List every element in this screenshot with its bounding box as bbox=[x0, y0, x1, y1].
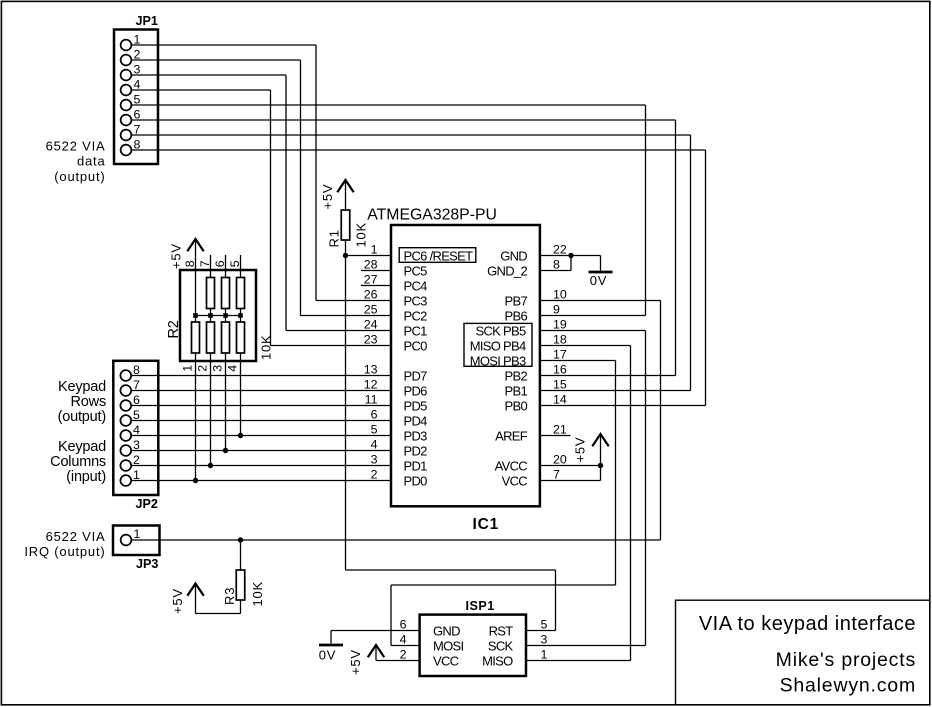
wire MISO: IC1 PB4 (18) to ISP1 pin 1 bbox=[526, 346, 631, 661]
svg-text:MOSI PB3: MOSI PB3 bbox=[470, 353, 526, 368]
wire JP2.5 to IC1 PD4 (6) bbox=[132, 420, 391, 422]
svg-text:23: 23 bbox=[364, 333, 378, 347]
wire MOSI: IC1 PB3 (17) to ISP1 pin 4 bbox=[391, 361, 616, 646]
ISP1 name label bbox=[466, 599, 495, 613]
svg-text:16: 16 bbox=[553, 363, 567, 377]
ISP1 pin numbers left 6 4 2 bbox=[400, 618, 407, 662]
svg-text:PC3: PC3 bbox=[404, 293, 428, 308]
label 6522 VIA IRQ (output) bbox=[24, 529, 105, 559]
connector ISP1 bbox=[420, 615, 526, 676]
R1 name label bbox=[327, 229, 342, 247]
R2 name label bbox=[166, 320, 182, 338]
IC1 name label bbox=[473, 516, 500, 533]
svg-text:GND: GND bbox=[433, 623, 460, 638]
JP1 pin numbers 1-8 bbox=[134, 33, 141, 152]
svg-text:0V: 0V bbox=[319, 648, 337, 663]
svg-text:10: 10 bbox=[553, 288, 567, 302]
wire GND: IC1 pin 22 to 0V bbox=[540, 256, 601, 271]
svg-text:12: 12 bbox=[364, 378, 378, 392]
title text bbox=[699, 613, 916, 635]
wire JP2.2 to IC1 PD1 (3) bbox=[132, 465, 391, 467]
label Keypad Columns (input) bbox=[50, 439, 106, 485]
svg-text:PD4: PD4 bbox=[404, 413, 428, 428]
svg-text:MISO PB4: MISO PB4 bbox=[470, 338, 526, 353]
wire JP2.3 to IC1 PD2 (4) bbox=[132, 450, 391, 452]
svg-text:JP1: JP1 bbox=[136, 14, 158, 28]
R1 value 10K bbox=[354, 222, 369, 248]
svg-text:0V: 0V bbox=[590, 273, 608, 288]
svg-text:(output): (output) bbox=[58, 409, 106, 425]
svg-text:PC2: PC2 bbox=[404, 308, 428, 323]
svg-text:9: 9 bbox=[553, 303, 560, 317]
power +5V (R3) bbox=[170, 584, 204, 615]
connector JP1 bbox=[114, 30, 158, 165]
svg-text:+5V: +5V bbox=[573, 437, 588, 463]
svg-text:SCK PB5: SCK PB5 bbox=[475, 323, 525, 338]
svg-text:28: 28 bbox=[364, 258, 378, 272]
svg-text:2: 2 bbox=[400, 648, 407, 662]
svg-text:ATMEGA328P-PU: ATMEGA328P-PU bbox=[367, 207, 497, 224]
ground 0V (ISP1) bbox=[319, 645, 343, 663]
svg-text:PD1: PD1 bbox=[404, 458, 428, 473]
svg-text:PC4: PC4 bbox=[404, 278, 428, 293]
svg-text:PC6 /RESET: PC6 /RESET bbox=[404, 248, 474, 263]
R2 pin numbers 1 2 3 4 bbox=[181, 365, 240, 372]
wire AVCC: IC1 pin 20 to +5V bbox=[540, 465, 601, 467]
svg-text:Columns: Columns bbox=[50, 454, 106, 470]
svg-text:+5V: +5V bbox=[169, 243, 184, 269]
wire JP2.8 to IC1 PD7 (13) bbox=[132, 375, 391, 377]
wire /RESET to ISP1 RST (pin 5) bbox=[346, 256, 556, 631]
IC1 port labels PC6..PD0 bbox=[399, 248, 476, 489]
svg-text:PD7: PD7 bbox=[404, 368, 428, 383]
svg-text:PD2: PD2 bbox=[404, 443, 428, 458]
wire JP2.7 to IC1 PD6 (12) bbox=[132, 390, 391, 392]
IC IC1 ATMEGA328P-PU bbox=[391, 225, 540, 506]
JP2 pin numbers 8-1 bbox=[133, 363, 140, 482]
svg-text:GND: GND bbox=[500, 248, 527, 263]
svg-text:6522 VIA: 6522 VIA bbox=[46, 139, 106, 154]
svg-text:PD5: PD5 bbox=[404, 398, 428, 413]
svg-text:22: 22 bbox=[553, 243, 567, 257]
JP3 name label bbox=[136, 557, 158, 571]
title block bbox=[676, 600, 930, 705]
power +5V (R2 common pin 8) bbox=[169, 239, 204, 269]
IC1 port labels GND..VCC bbox=[487, 248, 528, 488]
R2 value 10K bbox=[259, 334, 274, 360]
svg-text:3: 3 bbox=[541, 633, 548, 647]
power +5V (AVCC) bbox=[573, 434, 609, 466]
svg-text:3: 3 bbox=[211, 365, 225, 372]
svg-text:PC5: PC5 bbox=[404, 263, 428, 278]
wire R2.4 to JP2.4 / IC1 PD3 bbox=[240, 353, 242, 436]
svg-text:Keypad: Keypad bbox=[58, 439, 106, 455]
ISP1 pin numbers right 5 3 1 bbox=[541, 618, 548, 662]
svg-text:IRQ (output): IRQ (output) bbox=[24, 544, 105, 559]
svg-text:5: 5 bbox=[371, 423, 378, 437]
svg-text:IC1: IC1 bbox=[473, 516, 500, 533]
svg-text:PD3: PD3 bbox=[404, 428, 428, 443]
resistor network R2 bbox=[180, 240, 256, 361]
wire R2.1 to JP2.1 / IC1 PD0 bbox=[195, 353, 197, 481]
IC1 value ATMEGA328P-PU bbox=[367, 207, 497, 224]
resistor R1 bbox=[341, 210, 350, 256]
wire JP1.2 to IC1 PC2 (pin 25) bbox=[132, 60, 391, 316]
svg-text:PB7: PB7 bbox=[505, 293, 528, 308]
wire IRQ: JP3.1 to IC1 PB7 (pin 10) bbox=[132, 301, 660, 541]
svg-text:6: 6 bbox=[400, 618, 407, 632]
ground 0V (IC1) bbox=[589, 272, 613, 288]
IC1 ISP port box SCK MISO MOSI bbox=[464, 323, 532, 368]
junction R2.4 bbox=[238, 433, 243, 438]
pin stub IC1 PC5 (pin 28) bbox=[361, 270, 391, 272]
svg-text:R1: R1 bbox=[327, 229, 342, 247]
svg-text:ISP1: ISP1 bbox=[466, 599, 495, 613]
svg-text:24: 24 bbox=[364, 318, 378, 332]
JP1 name label bbox=[136, 14, 158, 28]
svg-text:AREF: AREF bbox=[495, 428, 528, 443]
svg-text:MISO: MISO bbox=[482, 653, 513, 668]
svg-text:18: 18 bbox=[553, 333, 567, 347]
wire JP1.1 to IC1 PC3 (pin 26) bbox=[132, 45, 391, 301]
junction GND bbox=[568, 253, 573, 258]
junction /RESET bbox=[343, 253, 348, 258]
svg-text:R2: R2 bbox=[166, 320, 182, 338]
svg-text:2: 2 bbox=[196, 365, 210, 372]
svg-text:VCC: VCC bbox=[502, 473, 528, 488]
pin stub IC1 PC4 (pin 27) bbox=[361, 285, 391, 287]
svg-text:1: 1 bbox=[134, 527, 141, 541]
svg-text:5: 5 bbox=[541, 618, 548, 632]
svg-text:19: 19 bbox=[553, 318, 567, 332]
svg-text:VCC: VCC bbox=[433, 653, 459, 668]
IC1 right pin numbers bbox=[553, 243, 567, 482]
svg-text:14: 14 bbox=[553, 393, 567, 407]
svg-text:MOSI: MOSI bbox=[433, 638, 464, 653]
svg-text:26: 26 bbox=[364, 288, 378, 302]
JP3 pin number 1 bbox=[134, 527, 141, 541]
svg-text:PB1: PB1 bbox=[505, 383, 528, 398]
svg-text:11: 11 bbox=[365, 393, 378, 407]
wire JP2.1 to IC1 PD0 (2) bbox=[132, 480, 391, 482]
svg-text:3: 3 bbox=[371, 453, 378, 467]
svg-text:20: 20 bbox=[553, 453, 567, 467]
wire JP1.4 to IC1 PC0 (pin 23) bbox=[132, 90, 391, 346]
svg-text:RST: RST bbox=[489, 623, 514, 638]
svg-text:(output): (output) bbox=[54, 169, 105, 184]
svg-text:6: 6 bbox=[371, 408, 378, 422]
wire JP1.6 to IC1 PB2 (pin 16) bbox=[132, 120, 676, 376]
svg-text:27: 27 bbox=[364, 273, 378, 287]
svg-text:5: 5 bbox=[228, 260, 242, 267]
svg-text:17: 17 bbox=[553, 348, 567, 362]
svg-text:PC0: PC0 bbox=[404, 338, 428, 353]
svg-text:+5V: +5V bbox=[348, 649, 363, 675]
svg-text:R3: R3 bbox=[222, 587, 237, 605]
svg-text:8: 8 bbox=[553, 258, 560, 272]
R3 name label bbox=[222, 587, 237, 605]
svg-text:1: 1 bbox=[541, 648, 548, 662]
wire /RESET node to IC1 pin 1 bbox=[346, 255, 392, 257]
svg-text:PB6: PB6 bbox=[505, 308, 528, 323]
svg-text:Mike's projects: Mike's projects bbox=[776, 649, 916, 671]
svg-text:15: 15 bbox=[553, 378, 567, 392]
wire GND_2: IC1 pin 8 bbox=[540, 256, 571, 271]
svg-text:VIA to keypad interface: VIA to keypad interface bbox=[699, 613, 916, 635]
svg-text:AVCC: AVCC bbox=[495, 458, 528, 473]
svg-text:GND_2: GND_2 bbox=[487, 263, 527, 278]
svg-text:+5V: +5V bbox=[170, 588, 185, 614]
svg-text:4: 4 bbox=[400, 633, 407, 647]
junction R2.1 bbox=[193, 478, 198, 483]
svg-text:2: 2 bbox=[371, 468, 378, 482]
power +5V (ISP1) bbox=[348, 645, 384, 675]
svg-text:PC1: PC1 bbox=[404, 323, 428, 338]
resistor R3 bbox=[196, 540, 245, 614]
junction R2.2 bbox=[208, 463, 213, 468]
svg-text:Shalewyn.com: Shalewyn.com bbox=[780, 675, 916, 697]
connector JP2 bbox=[113, 361, 158, 495]
svg-text:10K: 10K bbox=[259, 334, 274, 360]
svg-text:Keypad: Keypad bbox=[58, 379, 106, 395]
wire JP2.6 to IC1 PD5 (11) bbox=[132, 405, 391, 407]
wire SCK: IC1 PB5 (19) to ISP1 pin 3 bbox=[526, 331, 646, 646]
wire ISP1 GND to 0V bbox=[331, 631, 420, 644]
junction IRQ / R3 bbox=[238, 537, 243, 542]
svg-text:6522 VIA: 6522 VIA bbox=[46, 529, 106, 544]
svg-text:JP2: JP2 bbox=[136, 497, 158, 511]
IC1 left pin numbers bbox=[364, 243, 378, 482]
svg-text:13: 13 bbox=[364, 363, 378, 377]
svg-text:(input): (input) bbox=[66, 469, 106, 485]
svg-text:1: 1 bbox=[371, 243, 378, 257]
svg-text:4: 4 bbox=[371, 438, 378, 452]
pin stub IC1 AREF (pin 21) bbox=[540, 435, 571, 437]
website text bbox=[780, 675, 916, 697]
svg-text:6: 6 bbox=[213, 260, 227, 267]
junction AVCC/VCC bbox=[598, 463, 603, 468]
wire JP1.7 to IC1 PB1 (pin 15) bbox=[132, 135, 691, 391]
svg-text:21: 21 bbox=[553, 423, 567, 437]
svg-text:data: data bbox=[77, 154, 106, 169]
wire R2.2 to JP2.2 / IC1 PD1 bbox=[210, 353, 212, 466]
R3 value 10K bbox=[250, 581, 265, 607]
label Keypad Rows (output) bbox=[58, 379, 107, 425]
svg-text:1: 1 bbox=[181, 365, 195, 372]
svg-text:JP3: JP3 bbox=[136, 557, 158, 571]
svg-text:10K: 10K bbox=[250, 581, 265, 607]
svg-text:PD6: PD6 bbox=[404, 383, 428, 398]
svg-text:PD0: PD0 bbox=[404, 473, 428, 488]
svg-text:Rows: Rows bbox=[71, 394, 106, 410]
svg-text:7: 7 bbox=[553, 468, 560, 482]
wire JP1.8 to IC1 PB0 (pin 14) bbox=[132, 150, 706, 406]
svg-text:4: 4 bbox=[226, 365, 240, 372]
svg-text:PB2: PB2 bbox=[505, 368, 528, 383]
wire JP1.3 to IC1 PC1 (pin 24) bbox=[132, 75, 391, 331]
wire ISP1 VCC to +5V bbox=[376, 660, 420, 662]
power +5V (R1) bbox=[320, 180, 354, 210]
author text bbox=[776, 649, 916, 671]
connector JP3 bbox=[113, 526, 160, 556]
svg-text:7: 7 bbox=[198, 260, 212, 267]
svg-text:SCK: SCK bbox=[488, 638, 514, 653]
svg-text:10K: 10K bbox=[354, 222, 369, 248]
svg-text:+5V: +5V bbox=[320, 184, 335, 210]
R2 bus junctions bbox=[193, 313, 243, 318]
wire VCC: IC1 pin 7 bbox=[540, 466, 601, 481]
svg-text:8: 8 bbox=[183, 260, 197, 267]
wire R2.3 to JP2.3 / IC1 PD2 bbox=[225, 353, 227, 451]
junction R2.3 bbox=[223, 448, 228, 453]
R2 pin numbers 8 7 6 5 bbox=[183, 260, 242, 267]
label 6522 VIA data (output) bbox=[46, 139, 106, 185]
ISP1 port labels bbox=[433, 623, 514, 668]
svg-text:25: 25 bbox=[364, 303, 378, 317]
JP2 name label bbox=[136, 497, 158, 511]
wire JP1.5 to IC1 PB6 (pin 9) bbox=[132, 105, 646, 316]
wire JP2.4 to IC1 PD3 (5) bbox=[132, 435, 391, 437]
svg-text:PB0: PB0 bbox=[505, 398, 528, 413]
